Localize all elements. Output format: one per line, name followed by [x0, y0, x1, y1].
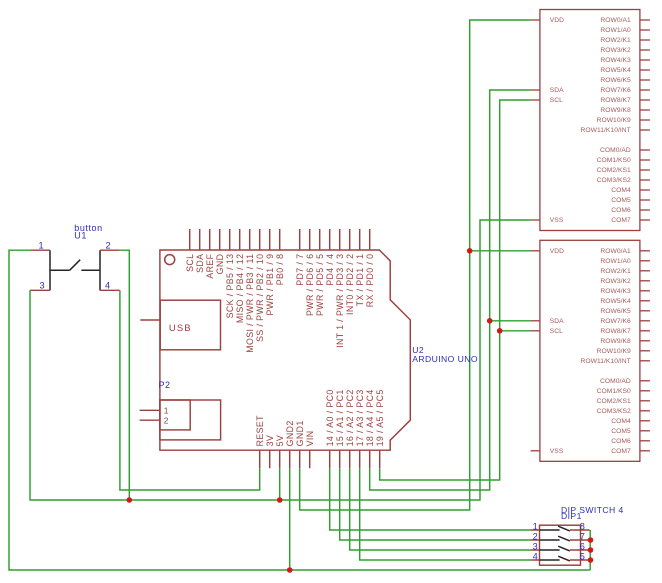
svg-text:ROW5/K4: ROW5/K4	[600, 298, 631, 305]
Arduino top pin PWR / PB1 / 9	[265, 229, 275, 316]
svg-text:6: 6	[580, 542, 585, 552]
junction DIP pin7	[588, 537, 594, 543]
wire SDA branch to IC2 SDA	[490, 320, 531, 322]
P2 pin 1 stub	[140, 409, 160, 411]
svg-text:P2: P2	[159, 380, 171, 390]
DIP1 switch 1 left pin stub	[531, 529, 540, 531]
DIP1 switch 1 right pin stub	[570, 529, 590, 531]
svg-text:COM7: COM7	[611, 217, 631, 224]
svg-text:COM6: COM6	[611, 207, 631, 214]
Arduino bottom pin VIN	[305, 431, 315, 469]
U4 pin ROW2/K1	[600, 268, 650, 275]
button U1 pin 1 stub	[30, 249, 50, 251]
svg-text:ROW1/A0: ROW1/A0	[600, 258, 631, 265]
Arduino USB shield pin stub	[140, 319, 160, 321]
wire SCL branch to IC2 SCL	[500, 330, 531, 332]
Arduino top pin SDA	[195, 229, 205, 273]
wire DIP right-side vertical to bottom rail	[589, 530, 591, 570]
svg-text:ROW11/K10/INT: ROW11/K10/INT	[580, 358, 630, 365]
U3 pin VDD	[531, 17, 565, 24]
keypad driver IC U4 body	[540, 240, 640, 461]
svg-text:3: 3	[533, 541, 538, 551]
svg-text:7: 7	[580, 532, 585, 542]
Arduino bottom pin GND1	[295, 420, 305, 468]
svg-text:PB0 / 8: PB0 / 8	[275, 254, 285, 286]
U4 pin SCL	[531, 328, 564, 335]
U3 pin COM5	[611, 197, 650, 204]
wire A1 to DIP1 pin 2	[340, 468, 531, 540]
Arduino top pin SS / PWR / PB2 / 10	[255, 229, 265, 342]
Arduino top pin PB0 / 8	[275, 229, 285, 285]
pushbutton U1	[50, 250, 100, 290]
svg-text:18 / A4 / PC4: 18 / A4 / PC4	[365, 389, 375, 446]
svg-text:VDD: VDD	[550, 248, 564, 255]
Arduino top pin TX / PD1 / 1	[355, 229, 365, 306]
svg-text:2: 2	[533, 531, 538, 541]
U3 pin COM2/KS1	[597, 167, 650, 174]
svg-text:ROW9/K8: ROW9/K8	[600, 107, 631, 114]
svg-text:PWR / PD6 / 6: PWR / PD6 / 6	[305, 254, 315, 316]
svg-text:GND2: GND2	[285, 420, 295, 446]
svg-text:RESET: RESET	[255, 415, 265, 447]
junction DIP pin5	[588, 557, 594, 563]
svg-text:17 / A3 / PC3: 17 / A3 / PC3	[355, 389, 365, 446]
DIP1 switch 4 left pin stub	[531, 559, 540, 561]
Arduino bottom pin RESET	[255, 415, 265, 468]
wire A2 to DIP1 pin 3	[350, 468, 531, 550]
DIP1 switch 4 contact lines	[540, 556, 570, 561]
Arduino bottom pin 19 / A5 / PC5	[375, 389, 385, 468]
Arduino top pin RX / PD0 / 0	[365, 229, 375, 307]
DIP1 switch 2 contact lines	[540, 536, 570, 541]
DIP1 switch 2 right pin stub	[570, 539, 590, 541]
svg-text:1: 1	[38, 240, 43, 250]
svg-text:ARDUINO UNO: ARDUINO UNO	[412, 354, 478, 364]
svg-text:ROW3/K2: ROW3/K2	[600, 47, 631, 54]
svg-text:MISO / PB4 / 12: MISO / PB4 / 12	[235, 254, 245, 324]
Arduino top pin MOSI / PWR / PB3 / 11	[245, 229, 255, 353]
U3 pin COM3/KS2	[597, 177, 650, 184]
svg-text:SDA: SDA	[550, 318, 564, 325]
svg-text:COM3/KS2: COM3/KS2	[597, 177, 631, 184]
U3 pin ROW5/K4	[600, 67, 650, 74]
svg-text:COM1/KS0: COM1/KS0	[597, 157, 631, 164]
junction SDA / IC2 SDA	[487, 318, 493, 324]
svg-text:COM7: COM7	[611, 448, 631, 455]
U3 pin SDA	[531, 87, 565, 94]
svg-text:2: 2	[164, 416, 169, 426]
svg-text:COM4: COM4	[611, 187, 631, 194]
svg-text:SCL: SCL	[185, 254, 195, 272]
U4 pin COM6	[611, 438, 650, 445]
Arduino bottom pin 5V	[275, 435, 285, 468]
Arduino top pin AREF	[205, 229, 215, 279]
U3 pin COM0/AD	[600, 147, 650, 154]
svg-text:ROW7/K6: ROW7/K6	[600, 318, 631, 325]
Arduino top pin MISO / PB4 / 12	[235, 229, 245, 323]
U4 pin ROW5/K4	[600, 298, 650, 305]
svg-text:ROW5/K4: ROW5/K4	[600, 67, 631, 74]
U4 pin ROW3/K2	[600, 278, 650, 285]
U4 pin ROW6/K5	[600, 308, 650, 315]
U3 pin ROW10/K9	[597, 117, 650, 124]
svg-text:COM3/KS2: COM3/KS2	[597, 408, 631, 415]
svg-text:ROW11/K10/INT: ROW11/K10/INT	[580, 127, 630, 134]
U3 pin ROW6/K5	[600, 77, 650, 84]
svg-text:ROW9/K8: ROW9/K8	[600, 338, 631, 345]
svg-text:USB: USB	[169, 323, 192, 334]
Arduino top pin PD7 / 7	[295, 229, 305, 286]
P2 pin 2 stub	[140, 419, 160, 421]
U3 pin ROW1/A0	[600, 27, 650, 34]
svg-text:ROW3/K2: ROW3/K2	[600, 278, 631, 285]
svg-text:ROW10/K9: ROW10/K9	[597, 348, 631, 355]
Arduino bottom pin 18 / A4 / PC4	[365, 389, 375, 468]
junction SCL / IC2 SCL	[497, 328, 503, 334]
U4 pin COM7	[611, 448, 650, 455]
svg-text:COM0/AD: COM0/AD	[600, 378, 631, 385]
svg-text:TX / PD1 / 1: TX / PD1 / 1	[355, 254, 365, 307]
svg-text:ROW7/K6: ROW7/K6	[600, 87, 631, 94]
U4 pin ROW8/K7	[600, 328, 650, 335]
Arduino top pin INT 1 / PWR / PD3 / 3	[335, 229, 345, 348]
DIP1 switch 3 left pin stub	[531, 549, 540, 551]
Arduino top pin GND	[215, 229, 225, 274]
svg-text:PWR / PB1 / 9: PWR / PB1 / 9	[265, 254, 275, 316]
svg-text:COM0/AD: COM0/AD	[600, 147, 631, 154]
svg-text:3: 3	[39, 281, 44, 291]
svg-text:COM5: COM5	[611, 428, 631, 435]
svg-text:5: 5	[580, 552, 585, 562]
U3 pin SCL	[531, 97, 564, 104]
U4 pin COM5	[611, 428, 650, 435]
Arduino bottom pin 14 / A0 / PC0	[325, 389, 335, 468]
svg-text:2: 2	[105, 240, 110, 250]
U3 pin ROW0/A1	[600, 17, 650, 24]
Arduino top pin PWR / PD5 / 5	[315, 229, 325, 316]
U3 pin COM7	[611, 217, 650, 224]
svg-text:COM2/KS1: COM2/KS1	[597, 398, 631, 405]
svg-text:COM1/KS0: COM1/KS0	[597, 388, 631, 395]
U3 pin ROW11/K10/INT	[580, 127, 649, 134]
wire net VDD: GND1 pin down, right, bus up to IC1 VDD	[300, 20, 531, 510]
DIP1 switch 3 contact lines	[540, 546, 570, 551]
wire net GND: button pin1 to left rail to bottom rail	[9, 250, 590, 570]
svg-text:SDA: SDA	[550, 87, 564, 94]
svg-text:VDD: VDD	[550, 17, 564, 24]
U4 pin COM4	[611, 418, 650, 425]
svg-text:ROW2/K1: ROW2/K1	[600, 37, 631, 44]
svg-text:MOSI / PWR / PB3 / 11: MOSI / PWR / PB3 / 11	[245, 254, 255, 353]
svg-text:4: 4	[533, 551, 538, 561]
U4 pin ROW7/K6	[600, 318, 650, 325]
junction VDD / IC2 VDD	[467, 248, 473, 254]
Arduino bottom pin 3V	[265, 435, 275, 468]
U4 pin ROW9/K8	[600, 338, 650, 345]
svg-text:16 / A2 / PC2: 16 / A2 / PC2	[345, 389, 355, 446]
U4 pin COM0/AD	[600, 378, 650, 385]
svg-text:VSS: VSS	[550, 448, 564, 455]
svg-text:14 / A0 / PC0: 14 / A0 / PC0	[325, 389, 335, 446]
svg-text:SCL: SCL	[550, 97, 563, 104]
svg-text:U1: U1	[74, 231, 87, 241]
svg-text:SCL: SCL	[550, 328, 563, 335]
U4 pin ROW4/K3	[600, 288, 650, 295]
Arduino USB connector box	[160, 300, 220, 350]
Arduino UNO U2 body outline	[160, 250, 410, 450]
Arduino top pin SCL	[185, 229, 195, 272]
button U1 pin 3 stub	[30, 289, 50, 291]
U3 pin ROW3/K2	[600, 47, 650, 54]
U4 pin SDA	[531, 318, 565, 325]
U3 pin VSS	[531, 217, 564, 224]
svg-text:INT 1 / PWR / PD3 / 3: INT 1 / PWR / PD3 / 3	[335, 254, 345, 348]
svg-text:ROW4/K3: ROW4/K3	[600, 57, 631, 64]
connector P2 outer box	[160, 400, 221, 440]
U4 pin COM2/KS1	[597, 398, 650, 405]
svg-text:VIN: VIN	[305, 431, 315, 447]
Arduino bottom pin 17 / A3 / PC3	[355, 389, 365, 468]
svg-text:PD4 / 4: PD4 / 4	[325, 254, 335, 286]
svg-text:SDA: SDA	[195, 254, 205, 273]
junction button pin2 / VSS rail	[127, 497, 133, 503]
junction 5V / VSS rail	[277, 497, 283, 503]
U3 pin COM1/KS0	[597, 157, 650, 164]
svg-text:INT0 / PD2 / 2: INT0 / PD2 / 2	[345, 254, 355, 315]
Arduino top pin SCK / PB5 / 13	[225, 229, 235, 318]
svg-text:PWR / PD5 / 5: PWR / PD5 / 5	[315, 254, 325, 316]
wire VDD branch to IC2 VDD	[470, 250, 531, 252]
U4 pin VSS	[531, 448, 564, 455]
svg-text:1: 1	[533, 521, 538, 531]
U4 pin ROW0/A1	[600, 248, 650, 255]
svg-text:ROW2/K1: ROW2/K1	[600, 268, 631, 275]
Arduino top pin INT0 / PD2 / 2	[345, 229, 355, 315]
Arduino bottom pin 15 / A1 / PC1	[335, 389, 345, 468]
wire 5V pin to rail y500	[279, 468, 281, 500]
wire A3 to DIP1 pin 4	[360, 468, 531, 560]
U3 pin ROW2/K1	[600, 37, 650, 44]
U3 pin ROW7/K6	[600, 87, 650, 94]
svg-text:COM5: COM5	[611, 197, 631, 204]
svg-text:ROW6/K5: ROW6/K5	[600, 77, 631, 84]
svg-text:SCK / PB5 / 13: SCK / PB5 / 13	[225, 254, 235, 319]
connector P2 inner box	[160, 400, 190, 430]
svg-text:PD7 / 7: PD7 / 7	[295, 254, 305, 286]
svg-text:RX / PD0 / 0: RX / PD0 / 0	[365, 254, 375, 308]
U4 pin VDD	[531, 248, 565, 255]
wire button pin2 down to 5V rail	[120, 250, 130, 500]
DIP1 switch 4 right pin stub	[570, 559, 590, 561]
wire button pin4 to RESET	[120, 290, 260, 490]
svg-text:COM2/KS1: COM2/KS1	[597, 167, 631, 174]
DIP1 switch 2 left pin stub	[531, 539, 540, 541]
DIP1 switch 3 right pin stub	[570, 549, 590, 551]
svg-text:5V: 5V	[275, 435, 285, 447]
svg-text:8: 8	[580, 522, 585, 532]
Arduino top pin PD4 / 4	[325, 229, 335, 286]
U3 pin ROW8/K7	[600, 97, 650, 104]
svg-text:1: 1	[164, 406, 169, 416]
U3 pin COM6	[611, 207, 650, 214]
svg-text:ROW6/K5: ROW6/K5	[600, 308, 631, 315]
svg-text:ROW1/A0: ROW1/A0	[600, 27, 631, 34]
DIP1 switch 1 contact lines	[540, 526, 570, 531]
wire net SCL: A5 pin down, right, bus up to IC1 SCL	[380, 100, 531, 480]
wire A0 to DIP1 pin 1	[330, 468, 531, 530]
wire net VSS: button pin3 down, rail y500, up to IC1 VSS	[30, 220, 531, 500]
svg-text:ROW8/K7: ROW8/K7	[600, 97, 631, 104]
svg-text:AREF: AREF	[205, 253, 215, 278]
svg-text:SS / PWR / PB2 / 10: SS / PWR / PB2 / 10	[255, 254, 265, 342]
svg-text:19 / A5 / PC5: 19 / A5 / PC5	[375, 389, 385, 446]
U4 pin COM1/KS0	[597, 388, 650, 395]
svg-text:ROW0/A1: ROW0/A1	[600, 248, 631, 255]
Arduino pin-1 indicator circle	[165, 255, 175, 265]
keypad driver IC U3 body	[540, 10, 640, 231]
button U1 pin 2 stub	[100, 249, 120, 251]
U4 pin COM3/KS2	[597, 408, 650, 415]
U3 pin ROW9/K8	[600, 107, 650, 114]
U4 pin ROW1/A0	[600, 258, 650, 265]
svg-text:ROW10/K9: ROW10/K9	[597, 117, 631, 124]
U4 pin ROW11/K10/INT	[580, 358, 649, 365]
svg-text:ROW8/K7: ROW8/K7	[600, 328, 631, 335]
wire GND2 pin down to bottom rail	[289, 468, 291, 570]
svg-text:COM4: COM4	[611, 418, 631, 425]
U3 pin COM4	[611, 187, 650, 194]
svg-text:ROW0/A1: ROW0/A1	[600, 17, 631, 24]
svg-text:ROW4/K3: ROW4/K3	[600, 288, 631, 295]
U3 pin ROW4/K3	[600, 57, 650, 64]
svg-text:DIP1: DIP1	[561, 511, 582, 521]
svg-text:COM6: COM6	[611, 438, 631, 445]
svg-text:VSS: VSS	[550, 217, 564, 224]
junction GND2 / bottom rail	[287, 567, 293, 573]
Arduino bottom pin 16 / A2 / PC2	[345, 389, 355, 468]
svg-text:GND: GND	[215, 254, 225, 275]
svg-text:4: 4	[105, 281, 110, 291]
Arduino bottom pin GND2	[285, 420, 295, 468]
button U1 pin 4 stub	[100, 289, 120, 291]
svg-text:3V: 3V	[265, 435, 275, 447]
svg-text:GND1: GND1	[295, 420, 305, 446]
wire net SDA: A4 pin down, right, bus up to IC1 SDA	[370, 90, 531, 490]
DIP switch DIP1 body	[540, 525, 581, 565]
U4 pin ROW10/K9	[597, 348, 650, 355]
junction DIP pin6	[588, 547, 594, 553]
Arduino top pin PWR / PD6 / 6	[305, 229, 315, 316]
svg-text:15 / A1 / PC1: 15 / A1 / PC1	[335, 389, 345, 446]
